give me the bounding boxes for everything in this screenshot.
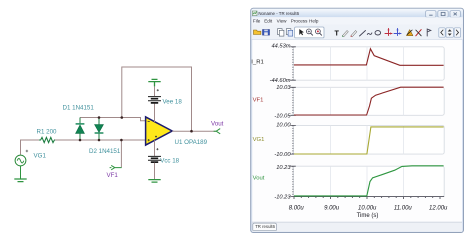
svg-text:Vee 18: Vee 18: [163, 98, 183, 105]
pan tool: [316, 29, 321, 34]
svg-text:Noname - TR result6: Noname - TR result6: [258, 11, 299, 16]
svg-text:10.00u: 10.00u: [358, 205, 377, 211]
wire op-amp power top pin to Vee: [154, 103, 156, 122]
pen tool red: [351, 31, 357, 37]
polarity plus (Vee): [157, 89, 159, 91]
svg-text:VF1: VF1: [253, 98, 264, 104]
battery Vcc: [148, 156, 161, 162]
svg-text:TR result6: TR result6: [255, 224, 275, 229]
VG1 polarity plus mark: [26, 150, 28, 152]
window frame: [251, 8, 464, 232]
output pin Vout: [214, 129, 221, 134]
polarity plus (Vcc): [156, 148, 158, 150]
copy icon 1: [278, 29, 284, 36]
toolbar: [252, 25, 463, 40]
vertical gridlines: [331, 47, 404, 197]
title icon: [252, 11, 257, 16]
svg-text:File: File: [253, 19, 261, 24]
flag tool: [427, 29, 431, 36]
svg-text:R1 200: R1 200: [37, 129, 58, 136]
svg-text:U1 OPA189: U1 OPA189: [175, 139, 208, 146]
svg-text:T: T: [335, 28, 340, 37]
pen tool green: [343, 31, 349, 37]
zoom tool: [307, 29, 312, 34]
svg-text:-10.05: -10.05: [274, 113, 291, 119]
battery Vee: [148, 97, 161, 103]
svg-text:Process: Process: [291, 19, 308, 24]
wire op-amp output to Vout: [172, 130, 216, 132]
svg-text:-10.00: -10.00: [274, 152, 291, 158]
svg-text:10.00: 10.00: [276, 123, 291, 129]
ground (above Vee, flipped): [148, 79, 160, 86]
svg-text:Help: Help: [309, 19, 319, 24]
x tick labels: [289, 205, 448, 211]
op-amp U1: [146, 117, 173, 145]
ground (VG1): [14, 179, 26, 182]
x axis: [294, 197, 445, 199]
client area: [252, 40, 462, 222]
diode D1 (pointing up): [76, 118, 85, 141]
folder open icon: [254, 30, 261, 35]
wire feedback loop: [122, 67, 192, 131]
y axes: [290, 47, 296, 197]
svg-text:Vout: Vout: [253, 175, 265, 181]
svg-text:View: View: [277, 19, 288, 24]
svg-text:Edit: Edit: [264, 19, 273, 24]
curve Vout: [294, 166, 444, 196]
curve VG1: [294, 127, 444, 154]
wire VF1 stub: [120, 140, 122, 168]
nav right button: [454, 28, 460, 37]
svg-text:Time (s): Time (s): [357, 213, 379, 219]
curve I_R1: [294, 49, 444, 66]
svg-text:12.00u: 12.00u: [429, 205, 448, 211]
axes tool red: [385, 29, 392, 36]
copy icon 2: [286, 29, 292, 36]
svg-text:VG1: VG1: [253, 137, 265, 143]
wire Vee to ground: [154, 86, 156, 96]
slope tool red: [416, 30, 421, 36]
curve tool: [367, 33, 372, 35]
slope tool yellow: [407, 30, 413, 36]
svg-text:-44.60m: -44.60m: [270, 78, 291, 84]
svg-text:9.00u: 9.00u: [324, 205, 340, 211]
voltage pin VF1: [110, 165, 122, 169]
svg-text:VF1: VF1: [107, 172, 119, 179]
svg-text:Vout: Vout: [211, 120, 224, 127]
svg-text:11.00u: 11.00u: [394, 205, 413, 211]
wire top rail (diodes to inverting input): [80, 118, 146, 121]
ground (below Vcc): [148, 180, 160, 183]
ellipse tool: [375, 31, 381, 35]
svg-text:D1 1N4151: D1 1N4151: [63, 105, 95, 112]
menu bar: [252, 17, 463, 24]
wire VG1 to ground: [20, 166, 22, 179]
wire VG1 to R1 (net input): [21, 140, 40, 155]
node junction dots: [79, 116, 193, 141]
diode D2 (pointing down): [95, 118, 104, 141]
svg-text:-10.23: -10.23: [274, 194, 291, 200]
bottom tab bar: [252, 222, 462, 231]
wire Vcc to ground: [154, 163, 156, 180]
wire R1 to op-amp non-inverting input (bottom rail): [55, 139, 146, 141]
line tool: [360, 31, 366, 37]
op-amp input signs: [148, 121, 157, 141]
curve VF1: [294, 87, 444, 115]
svg-text:I_R1: I_R1: [251, 59, 263, 65]
wire op-amp power bottom pin to Vcc: [154, 140, 156, 156]
title bar: [251, 9, 462, 17]
y tick labels: [270, 43, 292, 200]
save icon: [263, 30, 270, 36]
window buttons: [426, 11, 461, 18]
svg-text:10.03: 10.03: [276, 85, 291, 91]
voltage generator VG1: [15, 155, 26, 166]
svg-text:44.53m: 44.53m: [272, 43, 291, 49]
tab TR result6: [253, 223, 277, 230]
cursor tool (pressed group): [295, 27, 324, 38]
svg-text:8.00u: 8.00u: [289, 205, 305, 211]
resistor R1: [39, 137, 56, 142]
nav spinner: [446, 28, 453, 37]
nav left button: [439, 28, 445, 37]
svg-text:VG1: VG1: [34, 153, 47, 160]
axes tool blue: [394, 29, 401, 36]
svg-text:D2 1N4151: D2 1N4151: [89, 148, 121, 155]
svg-text:Vcc 18: Vcc 18: [160, 158, 179, 165]
svg-text:10.23: 10.23: [276, 165, 291, 171]
plot frames: [294, 47, 445, 197]
